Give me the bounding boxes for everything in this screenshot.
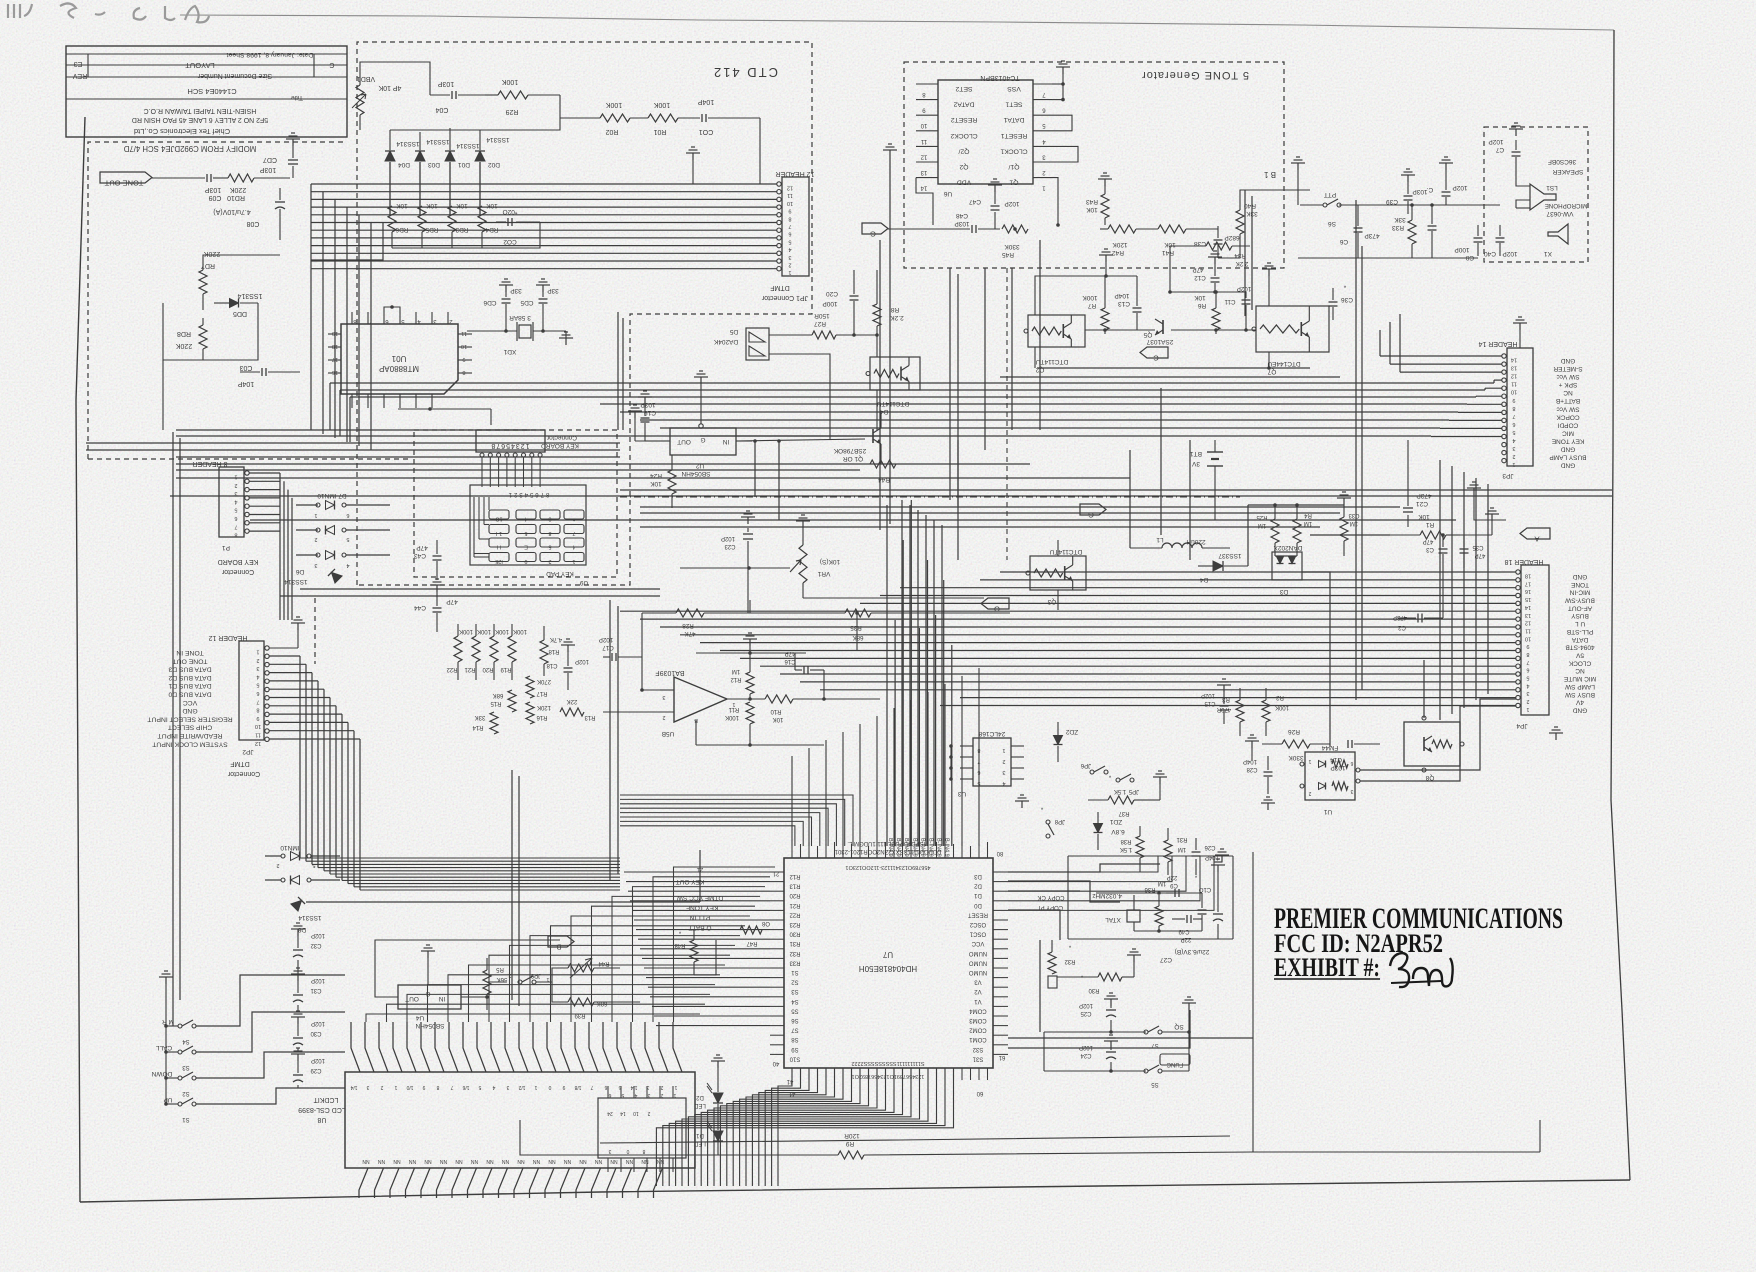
capacitor C16 47P [803,666,805,674]
wire U8 bottom pin [499,1168,508,1198]
svg-text:C6: C6 [1339,238,1348,245]
capacitor C29 102P [293,1074,303,1076]
node dashed-line-mid [620,496,1240,498]
svg-text:R13: R13 [789,883,801,889]
svg-text:24LC168: 24LC168 [978,730,1005,737]
svg-text:NN: NN [409,1158,417,1164]
node U7 pin V1 [993,996,1008,998]
node U7 pin COM3 [993,1015,1008,1017]
node U7 pin COM2 [993,1025,1008,1027]
node U1 bottom pin [367,394,369,408]
svg-text:4: 4 [788,246,791,252]
capacitor C40 102P [1496,237,1505,239]
svg-text:1M: 1M [1158,880,1166,886]
wire r35 line [744,612,820,614]
node key 3,1 [516,553,536,562]
svg-text:NN: NN [579,1158,587,1164]
svg-text:CLOCK1: CLOCK1 [1000,147,1027,154]
wire hbus mid1 [176,429,530,431]
svg-text:*02O: *02O [503,208,518,215]
resistor C33 1M [1340,517,1348,541]
node U7 pin R32 [770,948,784,950]
svg-text:7: 7 [450,1084,453,1090]
svg-text:120K: 120K [1112,241,1128,248]
svg-text:S10: S10 [789,1055,800,1061]
svg-text:100P: 100P [1454,246,1469,253]
node U7 pin R13 [770,881,784,883]
svg-text:CO2: CO2 [503,238,517,245]
wire [392,222,540,248]
ground [1217,865,1219,872]
wire U7 top pin [970,846,972,858]
svg-text:8: 8 [462,369,465,375]
diode D03 [415,151,425,161]
resistor R3 470R [1236,700,1244,722]
wire [481,232,483,248]
wire U7-right cluster links [1008,864,1160,872]
wire [531,457,533,487]
svg-text:2: 2 [1308,790,1311,796]
node U3 pin [960,756,973,758]
wire xtal loop [1134,892,1202,894]
wire [1539,1120,1541,1152]
svg-text:CD7: CD7 [263,156,277,163]
capacitor C03 104P [261,368,263,376]
svg-text:VBD1: VBD1 [357,75,375,82]
svg-text:V1: V1 [974,998,982,1004]
svg-text:DATA1: DATA1 [1003,116,1024,123]
wire U8 top pin [463,1022,472,1072]
node JP4 pin 12 [1516,617,1520,621]
ground [802,521,804,528]
wire [641,613,643,690]
capacitor CD6 33P [502,298,511,300]
node JP4 pin 7 [1516,656,1520,660]
svg-text:33K: 33K [1394,216,1406,223]
svg-text:NN: NN [486,1158,494,1164]
node JP3 pin 8 [1502,402,1506,406]
svg-text:U4: U4 [415,1014,424,1021]
svg-text:SQ: SQ [1174,1023,1183,1030]
svg-text:B-IN4.9: B-IN4.9 [928,838,934,857]
svg-text:RD10: RD10 [227,194,245,201]
svg-text:U7: U7 [882,950,893,959]
svg-text:4: 4 [1512,437,1515,443]
svg-text:R01: R01 [653,128,666,135]
node key 2,3 [564,538,584,547]
node U7 pin NUMO [993,957,1008,959]
svg-text:C43: C43 [414,552,426,559]
svg-text:2: 2 [276,862,279,868]
capacitor C36 102P [1442,191,1451,193]
op-amp U6 TC4013BPN [938,80,1033,184]
wire [539,457,541,487]
wire U6 vdd loop [916,178,933,225]
ground [1267,803,1269,810]
ground [1133,955,1135,962]
node JP3 pin 2 [1502,450,1506,454]
svg-text:NN: NN [455,1158,463,1164]
svg-text:1: 1 [394,1084,397,1090]
op-amp U1 FM44 [1305,752,1355,800]
capacitor C10 [1198,909,1207,911]
node JP2 pin 11 [265,729,269,733]
wire U8 top pin [365,1022,374,1072]
svg-text:CD5: CD5 [520,299,533,306]
svg-text:C25: C25 [1080,1010,1092,1016]
svg-text:RESET2: RESET2 [951,116,978,123]
svg-text:S6: S6 [1328,220,1336,227]
svg-text:IN: IN [722,438,729,445]
resistor R39 68K [568,998,594,1006]
wire [1186,228,1218,230]
node G net [862,223,888,234]
svg-text:100P: 100P [822,300,837,307]
wire border-bottom [80,1180,1630,1202]
switch S2 DOWN [178,1076,182,1080]
node JP4 pin 9 [1516,640,1520,644]
node JP4 pin 5 [1516,672,1520,676]
node U3 pin [960,778,973,780]
wire u4-verticals [511,770,513,1000]
svg-text:11: 11 [461,330,467,336]
svg-text:13: 13 [1511,365,1517,371]
svg-text:NN: NN [548,1158,556,1164]
resistor RD10 [213,177,228,179]
ground [692,153,694,160]
svg-text:R23: R23 [789,921,801,927]
svg-text:R14: R14 [472,724,484,730]
resistor RD7 220K [202,260,204,270]
svg-text:DTMF: DTMF [230,760,249,767]
wire U7 top pin [944,846,946,858]
svg-text:R33: R33 [1392,224,1404,231]
node U7 pin R33 [770,957,784,959]
svg-text:COM4: COM4 [969,1007,987,1013]
wire U8 top pin [491,1022,500,1072]
ground [165,977,167,984]
svg-text:R28: R28 [682,622,694,629]
svg-text:AF-OUT: AF-OUT [1568,604,1592,611]
svg-text:I I: I I [496,544,501,550]
svg-text:1SS314: 1SS314 [486,136,510,143]
wire U7 top pin [961,842,963,858]
svg-text:1SS337: 1SS337 [1218,552,1242,559]
svg-text:R32: R32 [789,950,801,956]
wire U7 top pin [851,844,853,858]
svg-text:S3: S3 [182,1064,190,1070]
svg-text:6: 6 [234,515,237,521]
svg-text:NN: NN [378,1158,386,1164]
svg-text:NUMO: NUMO [969,959,988,965]
transistor Q5 2SA1037 [1162,320,1164,334]
svg-text:4V: 4V [1575,699,1584,706]
node handwriting [8,3,209,22]
wire mic vertical pair [1355,200,1357,700]
svg-text:GND: GND [1560,462,1575,469]
svg-text:3: 3 [256,665,259,671]
wire U8 top pin [617,1022,626,1072]
wire [672,1086,674,1098]
svg-text:D0: D0 [974,902,982,908]
node JP1 pin 9 [777,205,781,209]
wire keypad-bottom lines [300,588,660,590]
resistor R7 100K [1101,308,1109,330]
node U1 left pin [328,372,341,374]
node keyconn pin [538,453,542,457]
svg-text:R10: R10 [770,708,782,714]
resistor R48 [690,940,698,962]
node U7 pin NUMO [993,967,1008,969]
svg-text:102P: 102P [1004,200,1019,207]
wire U7 top pin [876,844,878,858]
svg-text:R19: R19 [500,666,512,672]
svg-text:HD404818E50H: HD404818E50H [859,964,917,973]
svg-text:13: 13 [1525,612,1531,618]
node key 1,0 [489,525,509,534]
wire U7 bottom pin [927,1068,929,1080]
diode D5 DA204K [746,328,769,360]
svg-text:VCC: VCC [971,940,984,946]
svg-text:NN: NN [595,1158,603,1164]
svg-text:VCC: VCC [183,699,197,706]
node A net [1520,528,1550,539]
svg-text:S6: S6 [791,1017,799,1023]
wire [311,206,777,208]
wire U7 top pin [987,842,989,858]
capacitor C6 473P [1354,227,1363,229]
capacitor C13 104P [1133,307,1142,309]
diode D8 1SS314 [291,897,305,911]
node U7 pin S9 [770,1044,784,1046]
svg-text:1.5K: 1.5K [1114,788,1126,794]
svg-text:R8: R8 [890,306,899,313]
svg-text:R22: R22 [446,666,458,672]
op-amp U5B BA1039F [674,677,727,722]
svg-text:1234567891O1234567892O1: 1234567891O1234567892O1 [852,1073,925,1079]
node U1 right pin [458,346,472,348]
svg-text:7: 7 [256,698,259,704]
ground [297,623,299,630]
node U7 pin R30 [770,929,784,931]
svg-text:S8: S8 [791,1036,799,1042]
svg-text:100K: 100K [1082,294,1098,301]
node JP1 pin 6 [777,228,781,232]
resistor R14 33K [490,712,498,734]
wire U7 bottom pin [910,1068,912,1080]
svg-text:S-METER: S-METER [1553,365,1583,372]
svg-text:S1: S1 [182,1116,190,1122]
svg-text:CLOCK2: CLOCK2 [950,132,977,139]
svg-text:102P: 102P [311,977,325,983]
ground [1407,175,1409,182]
svg-text:R02: R02 [605,128,618,135]
node U7 pin R23 [770,919,784,921]
svg-text:47P: 47P [416,544,428,551]
svg-text:12 HEADER: 12 HEADER [776,170,815,177]
svg-text:REV: REV [72,72,87,79]
svg-text:DOWN: DOWN [151,1070,172,1077]
svg-text:C.: C. [1427,186,1434,193]
ground [1159,777,1161,784]
wire U4 loop [375,940,560,997]
ground [1062,67,1064,74]
node U7 pin COM1 [993,1034,1008,1036]
wire U7 top pin [885,842,887,858]
svg-text:Size Document Number: Size Document Number [197,72,272,79]
svg-text:D02: D02 [488,161,500,168]
wire border-left [76,117,85,1202]
svg-text:9: 9 [1526,643,1529,649]
svg-text:DATA2: DATA2 [953,101,974,108]
ground [1104,179,1106,186]
ground [1223,685,1225,692]
resistor R35 68K [845,609,871,617]
svg-text:C21: C21 [1416,500,1428,507]
svg-text:C29: C29 [310,1067,322,1073]
svg-text:456789O123411123-112OO123O1: 456789O123411123-112OO123O1 [845,864,930,870]
wire U7 top pin [936,842,938,858]
node U3 pin [960,767,973,769]
svg-text:12: 12 [255,740,261,746]
op-amp U8 LCD CSL-8399 [345,1072,695,1168]
svg-text:DTMF: DTMF [770,284,789,291]
ground [297,1017,299,1024]
wire [1057,540,1059,556]
wire U7 bottom pin [859,1068,861,1080]
resistor R17 270K [526,676,534,698]
node JP2 pin 5 [265,679,269,683]
wire switch-cap links [196,975,345,1026]
svg-text:OSC2: OSC2 [969,921,986,927]
resistor R41 10K [1158,225,1186,233]
svg-text:SB054HN: SB054HN [415,1022,444,1029]
svg-text:NN: NN [564,1158,572,1164]
svg-text:R47: R47 [746,940,758,946]
svg-text:TONE: TONE [1570,581,1589,588]
capacitor C02 [507,218,509,226]
svg-text:MODIFY FROM C992DJE4 SCH 4/7D: MODIFY FROM C992DJE4 SCH 4/7D [123,144,256,153]
svg-text:Connector: Connector [546,434,577,441]
node JP1 pin 11 [777,190,781,194]
svg-text:6: 6 [256,690,259,696]
wire U8 bottom pin [514,1168,523,1198]
svg-text:C7: C7 [1495,146,1504,153]
wire U7 bottom pin [893,1068,895,1080]
diode D02 [475,151,485,161]
wire bottom-line-1 [520,1120,838,1155]
svg-text:104P: 104P [238,380,255,387]
node U7 pin VCC [993,938,1008,940]
svg-text:10K: 10K [1086,206,1098,213]
wire [311,183,777,185]
svg-text:Q2: Q2 [959,163,968,170]
svg-text:R29: R29 [505,108,518,115]
transistor Q8 [1404,722,1460,766]
svg-text:E: E [524,544,528,550]
wire [311,191,777,193]
svg-text:102P: 102P [1237,285,1251,292]
wire [451,232,453,248]
node U7 pin R12 [770,871,784,873]
svg-text:150R: 150R [814,312,830,319]
svg-text:1 I: 1 I [495,530,502,536]
node U1 bottom pin [431,394,433,408]
ground [994,185,996,192]
node C net [1140,347,1168,358]
resistor R11 100K [746,702,754,724]
svg-text:V2: V2 [974,988,982,994]
svg-text:R32: R32 [1064,958,1076,964]
svg-text:104P: 104P [1114,292,1129,299]
node JP2 pin 7 [265,696,269,700]
capacitor C07 [288,159,298,161]
capacitor C17 102P [611,653,613,661]
svg-text:10: 10 [461,343,467,349]
diode D04 [385,151,395,161]
svg-text:X1: X1 [1544,250,1552,257]
svg-text:47K: 47K [684,630,696,637]
resistor R44b [870,460,896,468]
battery BT1 3V [1207,451,1223,453]
svg-text:2: 2 [314,536,317,542]
resistor R26 330K [1282,740,1310,748]
node JP1 pin 3 [777,251,781,255]
node U7 pin S1 [770,967,784,969]
svg-text:10K: 10K [486,202,498,209]
wire U8 top pin [449,1022,458,1072]
svg-text:7: 7 [1526,659,1529,665]
svg-text:6: 6 [788,231,791,237]
svg-text:RESET1: RESET1 [1001,132,1028,139]
svg-text:COM2: COM2 [969,1027,987,1033]
svg-text:NN: NN [502,1158,510,1164]
wire U8 top pin [407,1022,416,1072]
wire U7 top pin [953,844,955,858]
node JP1 pin 8 [777,213,781,217]
svg-text:1SS314: 1SS314 [298,914,322,921]
svg-text:33P: 33P [547,287,559,294]
svg-text:10K: 10K [1418,513,1430,520]
svg-text:GND: GND [1560,357,1575,364]
svg-text:1/0: 1/0 [406,1084,413,1090]
node key 3,0 [489,553,509,562]
capacitor C23 102P [743,533,753,535]
svg-text:10K: 10K [650,480,662,487]
node JP1 pin 7 [777,220,781,224]
svg-text:LAYOUT: LAYOUT [185,61,215,70]
svg-text:COPCK: COPCK [1556,413,1580,420]
capacitor C28 104P [1264,771,1273,773]
wire U7 bottom pin [808,1068,810,1080]
wire vbus right bundle [901,500,903,846]
svg-text:IN: IN [438,995,445,1002]
svg-text:2: 2 [380,1084,383,1090]
capacitor C12 47P [1211,277,1220,279]
node U1 pin 5 [399,312,401,324]
svg-text:1: 1 [572,558,575,564]
svg-text:C3: C3 [1426,546,1434,552]
connector key-board 8pin [476,430,545,452]
svg-text:102P: 102P [721,535,735,541]
resistor R44 variable [568,964,594,972]
svg-text:NN: NN [424,1158,432,1164]
wire U8 bottom pin [592,1168,601,1198]
svg-text:C11: C11 [1224,298,1235,305]
svg-text:33P: 33P [510,287,522,294]
wire U8 bottom pin [359,1168,368,1198]
svg-text:60: 60 [976,1090,983,1096]
